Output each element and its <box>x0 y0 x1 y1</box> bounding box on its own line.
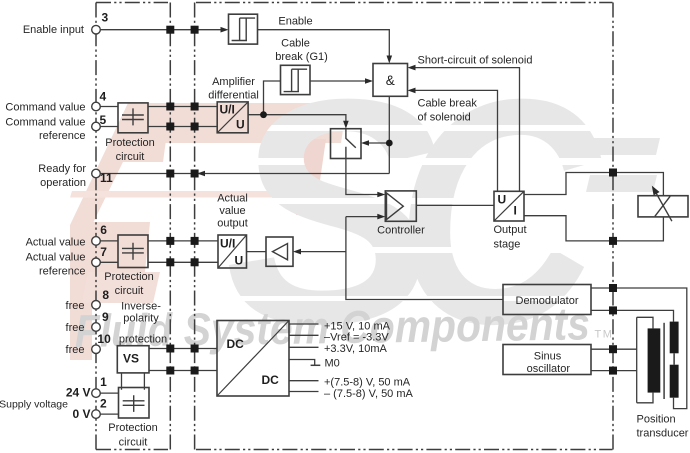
svg-text:7: 7 <box>100 245 107 259</box>
terminal 3 <box>92 25 101 34</box>
watermark pink F stem upper <box>70 103 152 225</box>
svg-text:circuit: circuit <box>119 437 148 449</box>
svg-text:value: value <box>219 205 245 217</box>
wire ready for operation <box>100 173 389 175</box>
svg-text:operation: operation <box>40 177 86 189</box>
svg-text:protection: protection <box>119 334 167 346</box>
svg-text:Short-circuit of solenoid: Short-circuit of solenoid <box>418 55 533 67</box>
switch S1 box <box>331 129 362 159</box>
terminal numbers <box>66 11 113 422</box>
svg-text:0 V: 0 V <box>72 407 90 421</box>
junction dot B <box>386 140 393 147</box>
svg-text:Output: Output <box>494 224 527 236</box>
svg-text:of solenoid: of solenoid <box>418 112 471 124</box>
svg-text:2: 2 <box>100 397 107 411</box>
svg-text:free: free <box>66 322 85 334</box>
watermark pink S fragment <box>296 139 326 215</box>
svg-text:Amplifier: Amplifier <box>212 76 255 88</box>
wire VS to DC top <box>149 348 217 350</box>
svg-text:differential: differential <box>208 90 259 102</box>
svg-text:VS: VS <box>123 352 139 366</box>
cable boundary line B <box>194 3 196 450</box>
svg-text:3: 3 <box>102 11 109 25</box>
svg-text:DC: DC <box>262 373 280 387</box>
svg-text:Ready for: Ready for <box>38 163 86 175</box>
arrowheads <box>197 27 416 255</box>
arrow into AND top <box>387 56 393 64</box>
wire output stage to solenoid bottom <box>524 216 663 241</box>
wire UI1 output to switch <box>248 115 346 122</box>
svg-text:DC: DC <box>227 337 245 351</box>
wire command value 5 <box>100 126 217 128</box>
frame left boundary <box>95 3 97 450</box>
protection symbol P2 <box>122 243 144 260</box>
wire controller to output stage <box>416 204 494 206</box>
wire limiter to UI2 <box>247 251 267 253</box>
svg-text:break (G1): break (G1) <box>275 51 328 63</box>
wire supply 0V <box>100 413 118 415</box>
svg-text:Cable break: Cable break <box>418 98 478 110</box>
svg-text:Cable: Cable <box>281 38 310 50</box>
wire output stage to solenoid top <box>524 173 663 196</box>
wire enable to AND gate <box>258 30 390 57</box>
svg-text:24 V: 24 V <box>66 386 91 400</box>
svg-text:U/I: U/I <box>220 103 235 117</box>
solenoid cross line <box>655 196 670 216</box>
svg-text:reference: reference <box>39 130 85 142</box>
arrow into switch top <box>343 121 349 129</box>
wire enable input <box>100 29 222 31</box>
transducer secondary coil top <box>670 322 679 354</box>
wire supply 24V <box>100 392 118 394</box>
watermark pink F serif blob <box>106 140 166 162</box>
M0 ground symbol <box>311 364 321 366</box>
wire primary loop <box>637 317 653 403</box>
svg-text:TM: TM <box>595 329 614 341</box>
terminal circles <box>92 25 101 418</box>
controller triangle <box>387 193 404 220</box>
transducer secondary series link <box>673 353 675 364</box>
arrow into controller bottom <box>377 214 385 220</box>
svg-text:M0: M0 <box>325 358 340 370</box>
svg-text:Inverse-: Inverse- <box>121 301 161 313</box>
wire sinus oscillator bottom <box>591 370 637 372</box>
svg-text:U: U <box>498 193 507 207</box>
hysteresis H1 box <box>229 14 258 44</box>
DC/DC diagonal <box>217 321 289 397</box>
wire demodulator secondary bottom <box>591 310 674 321</box>
svg-text:reference: reference <box>39 266 85 278</box>
svg-text:output: output <box>217 218 248 230</box>
terminal 9 <box>92 323 101 332</box>
svg-text:circuit: circuit <box>116 151 145 163</box>
U/I converter A2 box <box>218 235 247 268</box>
junction squares right boundary <box>609 169 617 375</box>
junction squares cable column <box>166 26 198 375</box>
watermark pink lower patch <box>82 272 160 303</box>
wire demodulator secondary top <box>591 288 687 409</box>
transducer secondary coil bottom <box>670 365 679 398</box>
switch S1 symbol <box>346 129 356 159</box>
U/I converter A1 box <box>217 102 248 133</box>
terminal 8 <box>92 301 101 310</box>
protection circuit box P2 <box>118 235 148 268</box>
wire cable-break feedback <box>413 90 498 191</box>
wire UI1 tap to hysteresis2 <box>264 81 281 115</box>
svg-text:Actual value: Actual value <box>26 252 86 264</box>
wire DC output stubs <box>289 324 319 392</box>
svg-text:Enable input: Enable input <box>23 24 84 36</box>
transducer primary coil <box>648 328 661 392</box>
sinus oscillator box <box>503 345 591 375</box>
wire feedback vertical <box>346 217 503 300</box>
output stage box <box>494 191 524 221</box>
svg-text:10: 10 <box>97 332 111 346</box>
watermark pink slat <box>70 191 343 198</box>
component bold texts <box>123 103 517 388</box>
svg-text:5: 5 <box>100 113 107 127</box>
svg-text:circuit: circuit <box>115 285 144 297</box>
svg-text:9: 9 <box>102 310 109 324</box>
svg-text:Command value: Command value <box>5 102 85 114</box>
svg-text:U/I: U/I <box>220 237 235 251</box>
terminal 6 <box>92 237 101 246</box>
watermark pink F stem lower <box>70 225 92 360</box>
arrow into AND left <box>365 78 373 84</box>
U/I A1 diagonal <box>217 102 248 133</box>
frame right boundary <box>612 3 614 450</box>
svg-text:Demodulator: Demodulator <box>516 295 579 307</box>
wire short-circuit feedback <box>413 68 520 192</box>
frame bottom border <box>96 449 613 451</box>
svg-text:U: U <box>236 118 245 132</box>
svg-text:Actual value: Actual value <box>26 237 86 249</box>
svg-text:8: 8 <box>102 288 109 302</box>
watermark swoosh slat 1 <box>588 138 660 155</box>
junction dot A <box>260 111 267 118</box>
wire feedback to controller <box>346 216 379 218</box>
svg-text:oscillator: oscillator <box>527 363 571 375</box>
terminal 11 <box>92 169 101 178</box>
svg-text:6: 6 <box>100 223 107 237</box>
svg-text:free: free <box>66 344 85 356</box>
solenoid adjust arrow line <box>655 190 672 221</box>
watermark pink F top bar <box>128 103 347 143</box>
watermark swoosh slat 2 <box>586 175 657 192</box>
svg-text:U: U <box>235 254 244 268</box>
watermark pink F middle bar <box>80 222 150 272</box>
svg-text:Protection: Protection <box>104 271 154 283</box>
controller box <box>385 191 416 221</box>
svg-text:transducer: transducer <box>637 428 689 440</box>
demodulator box <box>503 285 591 315</box>
arrow into limiter <box>293 249 301 255</box>
wire AND output down <box>388 96 390 173</box>
protection symbol P3 <box>123 395 145 412</box>
terminal 5 <box>92 122 101 131</box>
arrow into switch right <box>361 140 369 146</box>
DC/DC converter box <box>217 321 289 397</box>
arrow into hysteresis1 <box>221 27 229 33</box>
svg-text:Controller: Controller <box>377 225 425 237</box>
svg-text:+3.3V, 10mA: +3.3V, 10mA <box>324 343 388 355</box>
svg-text:&: & <box>386 73 395 88</box>
wire sinus oscillator top <box>591 348 637 350</box>
arrow into controller top <box>377 192 385 198</box>
wire switch to controller <box>346 159 379 195</box>
VS box <box>117 346 149 373</box>
svg-text:4: 4 <box>100 90 107 104</box>
svg-text:polarity: polarity <box>123 313 159 325</box>
svg-text:Enable: Enable <box>278 16 312 28</box>
frame top border <box>96 3 613 450</box>
solenoid arrowhead <box>652 186 660 196</box>
svg-text:Actual: Actual <box>217 193 248 205</box>
svg-text:1: 1 <box>100 375 107 389</box>
hysteresis H1 symbol <box>232 18 256 40</box>
wire VS to DC bottom <box>149 370 217 372</box>
limiter box <box>266 237 293 266</box>
transducer core <box>663 323 665 399</box>
U/I A2 diagonal <box>218 235 247 268</box>
output stage diagonal <box>494 191 524 221</box>
terminal 10 <box>92 345 101 354</box>
terminal 4 <box>92 102 101 111</box>
protection circuit box P3 <box>119 388 150 419</box>
arrow into AND right bottom <box>408 88 416 94</box>
svg-text:stage: stage <box>494 239 521 251</box>
arrow into AND right top <box>408 65 416 71</box>
wire hysteresis2 to AND <box>310 80 366 82</box>
svg-text:Sinus: Sinus <box>534 351 562 363</box>
svg-text:– (7.5-8) V, 50 mA: – (7.5-8) V, 50 mA <box>324 388 414 400</box>
svg-text:11: 11 <box>100 171 113 185</box>
svg-text:Protection: Protection <box>108 422 158 434</box>
wire feedback branch to limiter <box>299 251 346 253</box>
svg-text:I: I <box>514 204 517 218</box>
svg-text:Position: Position <box>637 414 676 426</box>
terminal 1 <box>92 389 101 398</box>
protection circuit box P1 <box>118 103 148 133</box>
hysteresis H2 symbol <box>284 69 308 91</box>
svg-text:+(7.5-8) V, 50 mA: +(7.5-8) V, 50 mA <box>324 377 411 389</box>
and gate U1 box <box>373 64 408 97</box>
svg-text:Command value: Command value <box>5 117 85 129</box>
cable boundary line A <box>169 3 171 450</box>
wire actual value 7 <box>100 261 218 263</box>
wire VS to protection bus <box>122 373 145 390</box>
solenoid coil box <box>638 196 688 217</box>
svg-text:Protection: Protection <box>105 137 155 149</box>
terminal 7 <box>92 258 101 267</box>
terminal 2 <box>92 410 101 419</box>
svg-text:free: free <box>66 300 85 312</box>
arrow ready-for-operation <box>197 171 205 177</box>
svg-text:Supply voltage: Supply voltage <box>0 399 68 411</box>
limiter triangle <box>273 244 288 260</box>
wire to switch right <box>367 142 389 144</box>
wire command value 4 <box>100 106 217 108</box>
wire actual value 6 <box>100 240 218 242</box>
svg-text:–Vref = -3.3V: –Vref = -3.3V <box>324 332 389 344</box>
protection symbol P1 <box>122 108 144 125</box>
hysteresis H2 box <box>281 65 311 94</box>
